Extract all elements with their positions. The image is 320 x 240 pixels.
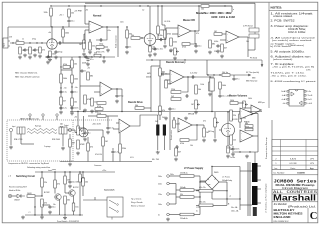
ground xyxy=(174,158,178,162)
resistor R55 xyxy=(203,128,209,137)
resistor R20 xyxy=(214,31,222,35)
wire reverb board edge xyxy=(150,66,152,112)
svg-text:8. 4558 numbering IC pinout: 8. 4558 numbering IC pinout xyxy=(271,80,317,83)
wire xyxy=(239,112,241,114)
svg-text:BC182: BC182 xyxy=(44,192,50,194)
resistor R30 xyxy=(84,95,91,104)
resistor R63 xyxy=(41,178,47,187)
svg-text:2. PCB: SW752: 2. PCB: SW752 xyxy=(271,21,296,23)
capacitor C32 xyxy=(48,205,55,209)
svg-text:2 springs: 2 springs xyxy=(44,146,51,148)
capacitor C28 xyxy=(111,150,118,154)
potentiometer VR4 xyxy=(208,118,219,133)
resistor R19 xyxy=(209,40,215,48)
wire dropper rail B xyxy=(71,57,73,112)
wire xyxy=(10,132,12,145)
svg-text:0.1u: 0.1u xyxy=(63,92,67,94)
wire xyxy=(74,130,76,133)
resistor R43 xyxy=(219,82,226,89)
ground xyxy=(208,93,212,97)
reverb output jack xyxy=(68,128,71,131)
svg-text:Master DB: Master DB xyxy=(183,19,195,22)
node junction xyxy=(224,5,225,6)
svg-text:1n: 1n xyxy=(22,39,24,41)
ground xyxy=(106,49,110,53)
svg-text:1k5: 1k5 xyxy=(75,207,78,209)
wire xyxy=(62,134,64,146)
wire xyxy=(159,60,161,120)
svg-text:470k: 470k xyxy=(167,34,171,36)
capacitor C filter 470u a xyxy=(199,187,213,192)
resistor R13 xyxy=(131,35,140,39)
wire xyxy=(194,189,200,191)
node junction xyxy=(62,26,63,27)
node junction xyxy=(82,171,83,172)
wire +15 rail xyxy=(35,171,115,173)
svg-text:220v: 220v xyxy=(158,183,162,185)
wire anode feed xyxy=(149,6,151,24)
wire xyxy=(88,115,97,117)
svg-text:LPV: LPV xyxy=(310,158,315,160)
title block divider 2 xyxy=(272,201,318,203)
resistor R11 xyxy=(96,46,104,51)
ground xyxy=(68,163,72,167)
resistor R39 xyxy=(195,85,201,94)
op-amp U6 xyxy=(251,105,261,115)
wire xyxy=(41,187,43,196)
capacitor C10 xyxy=(194,44,201,48)
svg-text:+10v: +10v xyxy=(107,30,111,32)
resistor R71 xyxy=(180,172,194,178)
capacitor C23 xyxy=(190,73,197,79)
node junction xyxy=(227,111,228,112)
wire xyxy=(214,127,216,138)
wire -in xyxy=(85,23,89,25)
wire xyxy=(238,102,244,104)
input jack J1 xyxy=(3,38,11,48)
resistor R31 xyxy=(91,98,97,106)
ground xyxy=(166,218,170,222)
wire xyxy=(194,214,200,216)
svg-text:1M: 1M xyxy=(72,143,75,145)
svg-text:2.2u 63v: 2.2u 63v xyxy=(190,73,197,75)
resistor R48 xyxy=(102,137,108,146)
svg-text:-In A 2: -In A 2 xyxy=(282,94,287,97)
wire anode xyxy=(51,27,53,39)
svg-text:4Ω1: 4Ω1 xyxy=(60,124,63,126)
svg-text:22k: 22k xyxy=(44,182,47,184)
svg-text:Springs: Springs xyxy=(35,126,41,128)
svg-text:C02-C 100w.: C02-C 100w. xyxy=(288,32,306,34)
resistor R18 xyxy=(170,38,177,46)
title block left border xyxy=(271,120,273,223)
svg-text:Defeating wiring control line: Defeating wiring control line xyxy=(27,166,50,169)
node junction xyxy=(239,151,240,152)
node junction xyxy=(100,5,101,6)
wire xyxy=(258,188,262,190)
resistor R15 xyxy=(149,46,157,52)
resistor R3 xyxy=(16,40,24,45)
wire xyxy=(103,57,105,59)
node junction xyxy=(41,214,42,215)
wire xyxy=(126,27,128,30)
tube V1 xyxy=(47,39,57,49)
resistor R67 xyxy=(64,196,70,204)
resistor R29 xyxy=(87,72,93,80)
svg-text:10k: 10k xyxy=(246,41,249,43)
node junction xyxy=(141,37,142,38)
resistor R10 xyxy=(89,42,95,50)
resistor R7 xyxy=(62,29,69,37)
resistor R21 xyxy=(221,44,227,52)
svg-text:W005: W005 xyxy=(214,172,218,174)
node junction xyxy=(54,171,55,172)
svg-text:470k: 470k xyxy=(63,64,67,66)
wire xyxy=(56,116,58,120)
ground xyxy=(38,55,42,59)
svg-text:+Ve = pin 8, TL072s, pin 8): +Ve = pin 8, TL072s, pin 8) xyxy=(272,67,315,69)
svg-text:10u 63v: 10u 63v xyxy=(72,182,79,184)
wire xyxy=(220,33,226,35)
wire dropper rail A xyxy=(60,57,62,110)
wire xyxy=(83,49,85,52)
resistor R6 xyxy=(39,47,45,53)
wire xyxy=(258,202,262,204)
node junction xyxy=(199,189,200,190)
wire xyxy=(84,30,86,43)
op-amp U2 xyxy=(178,25,191,37)
wire xyxy=(68,17,70,19)
wire xyxy=(65,192,69,194)
wire xyxy=(84,33,85,35)
wire xyxy=(196,204,199,206)
ground xyxy=(21,216,25,220)
svg-text:68k: 68k xyxy=(212,44,215,46)
wire xyxy=(231,6,233,12)
wire xyxy=(21,143,34,145)
tube V3 xyxy=(222,124,235,137)
mains terminal 120v xyxy=(158,193,169,196)
node junction xyxy=(83,111,84,112)
wire xyxy=(197,124,204,126)
resistor R rail 10k xyxy=(201,5,209,11)
svg-text:100k: 100k xyxy=(65,33,69,35)
brace xyxy=(48,169,56,171)
capacitor C7 xyxy=(125,45,131,49)
wire FX through xyxy=(207,74,245,76)
wire xyxy=(54,196,56,198)
svg-text:+Ve: +Ve xyxy=(48,32,51,34)
capacitor C21 xyxy=(161,72,168,76)
svg-text:Input: Input xyxy=(3,43,6,47)
svg-text:6.12.88: 6.12.88 xyxy=(290,163,298,165)
diode D1 1N4007 xyxy=(14,194,25,201)
wire xyxy=(41,207,43,215)
node junction xyxy=(173,117,174,118)
svg-text:Components on PA PCB : connect: Components on PA PCB : connected via Tag… xyxy=(8,162,49,165)
capacitor C3 xyxy=(33,48,39,52)
svg-text:470k: 470k xyxy=(182,47,186,49)
svg-text:1M Log: 1M Log xyxy=(208,131,214,133)
capacitor C1 xyxy=(67,19,74,23)
wire xyxy=(195,43,197,46)
resistor R27 xyxy=(71,98,77,106)
ground xyxy=(194,111,198,115)
wire xyxy=(214,112,216,118)
svg-text:470k: 470k xyxy=(96,49,100,51)
FX thru arrow xyxy=(245,74,251,76)
capacitor C filter 470u b xyxy=(199,202,213,207)
wire xyxy=(227,137,229,147)
svg-text:} (and wires): } (and wires) xyxy=(288,45,304,47)
wire xyxy=(247,37,249,57)
resistor R58 xyxy=(230,110,236,121)
svg-text:500mA Delay: 500mA Delay xyxy=(222,179,232,182)
svg-text:470u 25v: 470u 25v xyxy=(199,187,206,189)
capacitor C26 xyxy=(218,94,230,98)
resistor R8 xyxy=(49,51,56,57)
resistor R9 xyxy=(79,40,85,49)
resistor R12 xyxy=(126,30,132,38)
wire xyxy=(61,69,72,71)
node junction xyxy=(121,111,122,112)
title block table row line xyxy=(272,164,318,166)
svg-text:470k: 470k xyxy=(245,127,249,129)
ground xyxy=(115,100,119,104)
wire xyxy=(126,38,128,45)
resistor R5 xyxy=(29,47,35,54)
svg-text:1n: 1n xyxy=(129,47,131,49)
wire xyxy=(64,184,66,193)
svg-text:10u: 10u xyxy=(52,207,55,209)
svg-text:Date:: Date: xyxy=(291,167,296,170)
wire bottom rail xyxy=(25,214,83,216)
wire xyxy=(82,172,84,196)
svg-text:47k: 47k xyxy=(203,121,206,123)
wire feedback loop xyxy=(189,125,197,140)
svg-text:100k: 100k xyxy=(248,98,252,100)
wire xyxy=(79,57,81,65)
wire xyxy=(83,34,85,40)
ground xyxy=(63,216,67,220)
svg-text:100v - 2A: 100v - 2A xyxy=(231,209,239,212)
capacitor C9 xyxy=(158,35,163,41)
svg-text:100k: 100k xyxy=(222,85,226,87)
svg-text:250mA 1a: 250mA 1a xyxy=(180,172,188,175)
node junction xyxy=(226,198,227,199)
ground xyxy=(40,216,44,220)
node junction xyxy=(41,171,42,172)
wire feedback xyxy=(182,77,188,92)
ground xyxy=(23,54,27,58)
wire out xyxy=(112,88,122,90)
wire xyxy=(165,73,170,75)
wire xyxy=(77,112,79,126)
reverb input jack xyxy=(9,128,12,131)
wire xyxy=(258,179,262,181)
wire xyxy=(102,130,104,137)
wire xyxy=(34,198,36,215)
ground xyxy=(173,57,177,61)
wire xyxy=(144,107,151,109)
svg-text:8 +Ve: 8 +Ve xyxy=(307,91,311,93)
resistor R53 xyxy=(180,139,189,145)
resistor R66 xyxy=(64,176,70,184)
svg-text:+Ve: +Ve xyxy=(74,117,77,119)
wire xyxy=(73,211,75,215)
node junction xyxy=(126,26,127,27)
transistor Q1 xyxy=(44,192,61,200)
svg-text:1k5: 1k5 xyxy=(94,102,97,104)
svg-text:L.T. Secondary - see Power amp: L.T. Secondary - see Power amp Diagram xyxy=(266,183,268,213)
reverb drive transformer winding 1 xyxy=(156,125,159,136)
wire xyxy=(164,25,166,30)
svg-text:220k: 220k xyxy=(171,89,175,91)
wire xyxy=(116,122,119,124)
title block table row line xyxy=(272,150,318,152)
svg-text:47k: 47k xyxy=(196,33,199,35)
wire xyxy=(87,137,89,143)
resistor R57 xyxy=(239,114,246,122)
svg-text:470p: 470p xyxy=(119,96,123,98)
wire xyxy=(119,133,121,144)
wire xyxy=(169,193,176,195)
node junction xyxy=(239,111,240,112)
wire xyxy=(239,36,248,38)
wire xyxy=(68,23,70,27)
resistor R16 xyxy=(164,30,171,38)
capacitor C11 xyxy=(216,44,223,48)
svg-text:4. All switch(es) viewed: 4. All switch(es) viewed xyxy=(271,37,316,40)
wire xyxy=(261,109,262,111)
svg-text:+30v ±10%: +30v ±10% xyxy=(92,124,101,126)
reverb output transducer coil xyxy=(59,127,67,134)
wire xyxy=(200,181,205,183)
node junction xyxy=(139,5,140,6)
wire in xyxy=(165,28,167,40)
capacitor C17 xyxy=(84,55,92,59)
node junction xyxy=(29,42,30,43)
svg-text:-Ve = 15v, pin 4: ±15v.: -Ve = 15v, pin 4: ±15v. xyxy=(271,75,308,77)
ground xyxy=(184,117,188,121)
svg-text:1u 63v: 1u 63v xyxy=(230,157,235,159)
wire coupling xyxy=(63,42,85,44)
svg-text:10k: 10k xyxy=(190,145,193,147)
capacitor C16 xyxy=(70,106,78,110)
svg-text:50v - 4A: 50v - 4A xyxy=(231,206,238,209)
wire xyxy=(157,115,159,125)
wire +Ve supply rail xyxy=(51,5,232,7)
wire xyxy=(212,198,240,200)
op-amp U4 xyxy=(100,82,112,96)
svg-text:470k: 470k xyxy=(87,99,91,101)
wire to FX send xyxy=(254,3,256,28)
node junction xyxy=(116,88,117,89)
svg-text:47k 0.5%: 47k 0.5% xyxy=(95,154,103,156)
svg-text:unless stated.: unless stated. xyxy=(273,15,293,18)
wire xyxy=(80,85,94,87)
node junction xyxy=(196,124,197,125)
capacitor C8 xyxy=(153,47,162,51)
node junction xyxy=(84,5,85,6)
svg-text:4001b: 4001b xyxy=(146,77,151,79)
svg-text:NB1: Chassis Shield Out.: NB1: Chassis Shield Out. xyxy=(15,72,38,75)
svg-text:100k: 100k xyxy=(52,54,56,56)
wire xyxy=(253,113,258,115)
ground xyxy=(106,131,110,135)
wire xyxy=(169,203,176,205)
node junction xyxy=(207,74,208,75)
svg-text:47u: 47u xyxy=(236,79,239,81)
wire FX return bus xyxy=(146,59,262,61)
wire xyxy=(35,195,42,197)
ground xyxy=(83,138,87,142)
wire +in xyxy=(85,29,89,31)
wire xyxy=(157,34,159,39)
svg-text:56k: 56k xyxy=(135,105,138,107)
svg-text:2.2u: 2.2u xyxy=(63,108,67,110)
spring line 1 xyxy=(27,129,57,131)
node junction xyxy=(194,30,195,31)
svg-text:Reverb Recovery: Reverb Recovery xyxy=(166,61,186,64)
svg-text:Reverb Drive: Reverb Drive xyxy=(128,101,143,104)
mains terminal 100v xyxy=(158,203,169,206)
wire xyxy=(257,114,259,153)
wire xyxy=(199,176,201,215)
svg-text:+Ve: +Ve xyxy=(75,87,78,89)
wire xyxy=(50,16,52,27)
svg-text:+In A 3: +In A 3 xyxy=(281,98,286,101)
wire xyxy=(107,116,109,126)
node junction xyxy=(79,214,80,215)
wire xyxy=(172,27,178,29)
capacitor C15 xyxy=(70,90,77,94)
wire out xyxy=(191,30,199,32)
reverb input transducer coil xyxy=(17,127,25,134)
svg-text:10k: 10k xyxy=(74,64,77,66)
wire xyxy=(164,38,166,44)
wire xyxy=(219,181,227,183)
svg-text:Send on Current: Send on Current xyxy=(115,35,118,48)
wire xyxy=(119,153,121,162)
svg-text:100k: 100k xyxy=(63,78,67,80)
svg-text:+ a: + a xyxy=(28,212,30,214)
wire xyxy=(102,146,104,162)
wire xyxy=(172,33,178,35)
wire anode xyxy=(83,116,85,128)
wire to drive transformer xyxy=(130,115,158,126)
svg-text:10k: 10k xyxy=(169,51,172,53)
footswitch jack xyxy=(107,197,123,220)
wire xyxy=(54,188,56,194)
ground xyxy=(226,155,230,159)
node junction xyxy=(84,42,85,43)
wire xyxy=(94,91,100,93)
title block table frame xyxy=(272,140,318,170)
svg-text:R2A 1.75Ω: R2A 1.75Ω xyxy=(14,138,23,141)
wire xyxy=(220,39,226,41)
svg-text:100k: 100k xyxy=(160,30,164,32)
wire xyxy=(12,195,17,197)
node junction xyxy=(71,86,72,87)
svg-text:1M: 1M xyxy=(105,141,108,143)
wire main lower bus xyxy=(70,111,262,113)
mains terminal 240v xyxy=(158,175,169,178)
wire xyxy=(200,180,207,182)
node junction xyxy=(79,56,80,57)
resistor R38 xyxy=(171,96,181,100)
svg-text:Switching Circuit: Switching Circuit xyxy=(16,175,35,178)
